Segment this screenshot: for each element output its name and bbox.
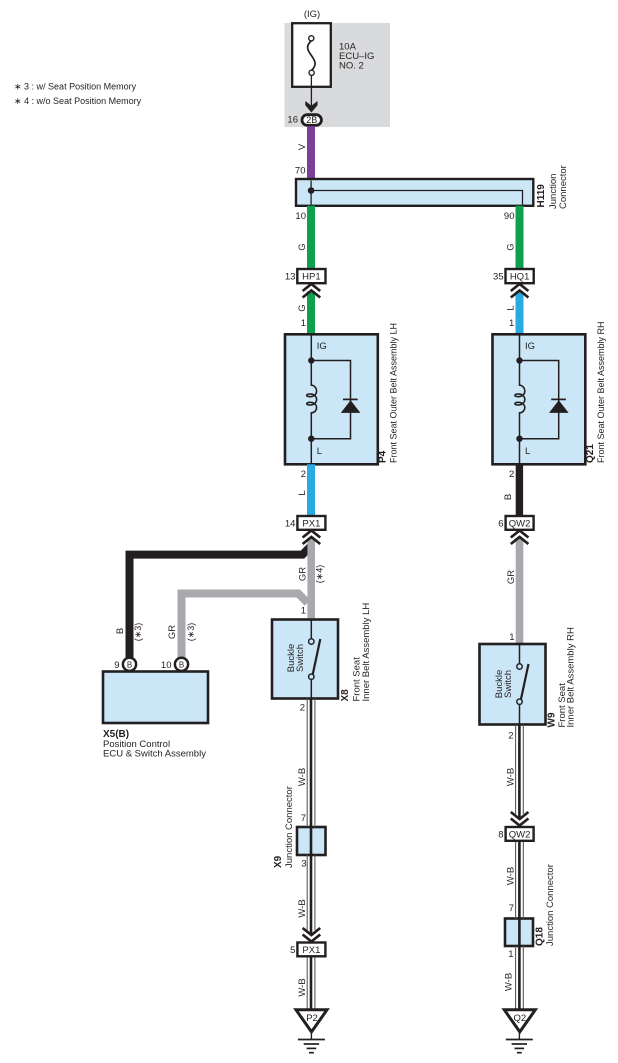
svg-text:IG: IG bbox=[317, 341, 327, 352]
wire from fuse to terminal 2B bbox=[310, 75, 312, 109]
svg-text:B: B bbox=[179, 660, 184, 669]
svg-text:3: 3 bbox=[301, 859, 306, 870]
svg-text:X9: X9 bbox=[273, 855, 284, 868]
svg-text:PX1: PX1 bbox=[302, 518, 320, 529]
svg-text:(IG): (IG) bbox=[304, 9, 320, 20]
svg-text:W-B: W-B bbox=[297, 768, 308, 786]
connector PX1 pin 5 bbox=[297, 943, 325, 957]
svg-text:B: B bbox=[503, 494, 514, 500]
svg-text:5: 5 bbox=[290, 945, 295, 956]
power source shading box bbox=[285, 23, 391, 127]
svg-text:7: 7 bbox=[509, 903, 514, 914]
wire G left (HP1 to P4) bbox=[307, 291, 315, 334]
shield chevrons below QW2 (6) bbox=[511, 531, 529, 545]
terminal B pin 10 bbox=[175, 658, 188, 671]
svg-text:(∗4): (∗4) bbox=[315, 565, 325, 584]
svg-text:W-B: W-B bbox=[297, 978, 308, 996]
svg-text:IG: IG bbox=[525, 341, 535, 352]
component Q21 Front Seat Outer Belt Assembly RH bbox=[493, 334, 586, 464]
svg-text:QW2: QW2 bbox=[509, 829, 531, 840]
shield chevrons at HQ1 bbox=[511, 284, 529, 298]
ground P2 bbox=[296, 1010, 327, 1053]
svg-text:PX1: PX1 bbox=[302, 945, 320, 956]
connector HP1 bbox=[297, 269, 325, 283]
svg-text:L: L bbox=[525, 446, 530, 457]
svg-text:Q21: Q21 bbox=[585, 444, 596, 463]
wire B branch to X5(B) pin 9 bbox=[130, 546, 312, 659]
svg-text:W-B: W-B bbox=[504, 973, 515, 991]
arrowhead down bbox=[305, 101, 317, 113]
svg-text:G: G bbox=[297, 243, 308, 250]
svg-text:9: 9 bbox=[114, 660, 119, 671]
svg-text:B: B bbox=[127, 660, 132, 669]
svg-text:Junction Connector: Junction Connector bbox=[545, 864, 556, 946]
wire L left (P4 to PX1) bbox=[307, 464, 315, 516]
svg-text:1: 1 bbox=[509, 632, 514, 643]
svg-text:G: G bbox=[505, 243, 516, 250]
svg-text:90: 90 bbox=[504, 211, 515, 222]
wire W-B left (X8 to ground) bbox=[307, 699, 315, 1010]
connector QW2 pin 6 bbox=[506, 516, 534, 530]
terminal B pin 9 bbox=[123, 658, 136, 671]
svg-text:6: 6 bbox=[498, 518, 503, 529]
svg-text:ECU & Switch Assembly: ECU & Switch Assembly bbox=[103, 749, 206, 760]
wire GR branch to X5(B) pin 10 bbox=[182, 594, 308, 659]
svg-text:1: 1 bbox=[508, 949, 513, 960]
svg-text:W-B: W-B bbox=[505, 867, 516, 885]
svg-text:W9: W9 bbox=[546, 712, 557, 727]
svg-text:W-B: W-B bbox=[505, 768, 516, 786]
svg-text:10: 10 bbox=[295, 211, 306, 222]
svg-text:G: G bbox=[297, 304, 308, 311]
svg-text:QW2: QW2 bbox=[509, 518, 531, 529]
junction connector H119 bbox=[296, 179, 533, 206]
svg-text:GR: GR bbox=[167, 625, 178, 639]
svg-text:B: B bbox=[115, 628, 126, 634]
shield chevrons at HP1 bbox=[303, 284, 321, 298]
svg-text:L: L bbox=[297, 490, 308, 495]
svg-text:8: 8 bbox=[498, 829, 503, 840]
wire L right (HQ1 to Q21) bbox=[516, 291, 524, 334]
svg-text:2: 2 bbox=[300, 703, 305, 714]
wire W-B right (W9 to ground) bbox=[516, 725, 524, 1010]
svg-text:GR: GR bbox=[298, 567, 309, 581]
wire GR main (PX1 to X8) bbox=[307, 538, 315, 620]
svg-text:∗ 4 : w/o Seat Position Memory: ∗ 4 : w/o Seat Position Memory bbox=[14, 96, 142, 106]
svg-text:13: 13 bbox=[285, 272, 296, 283]
svg-text:1: 1 bbox=[301, 318, 306, 329]
svg-text:L: L bbox=[317, 446, 322, 457]
shield chevrons above QW2 (8) bbox=[511, 812, 529, 826]
svg-text:2: 2 bbox=[509, 469, 514, 480]
svg-text:(∗3): (∗3) bbox=[186, 623, 196, 642]
wire B right (Q21 to QW2) bbox=[516, 464, 523, 516]
svg-text:Q2: Q2 bbox=[514, 1013, 527, 1024]
connector PX1 pin 14 bbox=[297, 516, 325, 530]
svg-text:Switch: Switch bbox=[295, 644, 306, 672]
svg-text:HP1: HP1 bbox=[302, 272, 320, 283]
svg-text:V: V bbox=[297, 143, 308, 150]
shield chevrons above PX1 (5) bbox=[303, 928, 321, 942]
junction connector X9 bbox=[297, 827, 326, 855]
junction connector Q18 bbox=[505, 919, 533, 947]
svg-text:2: 2 bbox=[301, 469, 306, 480]
svg-text:16: 16 bbox=[287, 115, 298, 126]
terminal oval 2B bbox=[302, 115, 321, 126]
connector QW2 pin 8 bbox=[506, 827, 534, 841]
wire V (violet) bbox=[307, 126, 315, 179]
svg-text:Junction Connector: Junction Connector bbox=[284, 786, 295, 868]
svg-text:GR: GR bbox=[506, 570, 517, 584]
connector HQ1 bbox=[506, 269, 534, 283]
svg-text:HQ1: HQ1 bbox=[510, 272, 530, 283]
svg-text:NO. 2: NO. 2 bbox=[339, 61, 364, 72]
svg-text:∗ 3 : w/ Seat Position Memory: ∗ 3 : w/ Seat Position Memory bbox=[14, 82, 137, 92]
svg-text:35: 35 bbox=[493, 272, 504, 283]
component X5(B) Position Control ECU bbox=[103, 672, 208, 724]
svg-text:10: 10 bbox=[161, 660, 172, 671]
svg-text:2: 2 bbox=[508, 731, 513, 742]
wire G left (H119 to HP1) bbox=[307, 206, 315, 269]
component W9 buckle switch bbox=[480, 644, 546, 725]
svg-text:H119: H119 bbox=[536, 184, 547, 208]
svg-text:P4: P4 bbox=[378, 450, 389, 463]
svg-text:14: 14 bbox=[285, 518, 296, 529]
svg-text:Inner Belt Assembly LH: Inner Belt Assembly LH bbox=[361, 603, 372, 702]
svg-text:Front Seat Outer Belt Assembly: Front Seat Outer Belt Assembly RH bbox=[596, 321, 606, 463]
diode branch bbox=[520, 361, 559, 439]
svg-text:X8: X8 bbox=[340, 689, 351, 702]
diode branch bbox=[311, 361, 350, 439]
svg-text:Connector: Connector bbox=[558, 165, 569, 209]
svg-text:(∗3): (∗3) bbox=[133, 623, 143, 642]
svg-text:1: 1 bbox=[301, 606, 306, 617]
component X8 buckle switch bbox=[272, 620, 338, 699]
svg-text:7: 7 bbox=[301, 813, 306, 824]
svg-text:2B: 2B bbox=[306, 115, 317, 125]
coil bbox=[515, 385, 525, 413]
wire GR right (QW2 to W9) bbox=[516, 538, 524, 644]
svg-text:P2: P2 bbox=[306, 1013, 318, 1024]
shield chevrons below PX1 bbox=[303, 531, 321, 545]
svg-text:Switch: Switch bbox=[503, 670, 514, 698]
svg-text:W-B: W-B bbox=[297, 899, 308, 917]
svg-text:70: 70 bbox=[295, 166, 306, 177]
svg-text:Inner Belt Assembly RH: Inner Belt Assembly RH bbox=[566, 627, 577, 727]
svg-text:Front Seat Outer Belt Assembly: Front Seat Outer Belt Assembly LH bbox=[389, 323, 399, 463]
coil bbox=[307, 385, 317, 413]
fuse 10A ECU-IG NO. 2 bbox=[292, 23, 331, 87]
ground Q2 bbox=[504, 1010, 535, 1053]
wire G right (H119 to HQ1) bbox=[516, 206, 524, 269]
svg-text:1: 1 bbox=[509, 318, 514, 329]
svg-text:Q18: Q18 bbox=[535, 927, 546, 946]
component P4 Front Seat Outer Belt Assembly LH bbox=[285, 334, 378, 464]
svg-text:L: L bbox=[505, 305, 516, 310]
